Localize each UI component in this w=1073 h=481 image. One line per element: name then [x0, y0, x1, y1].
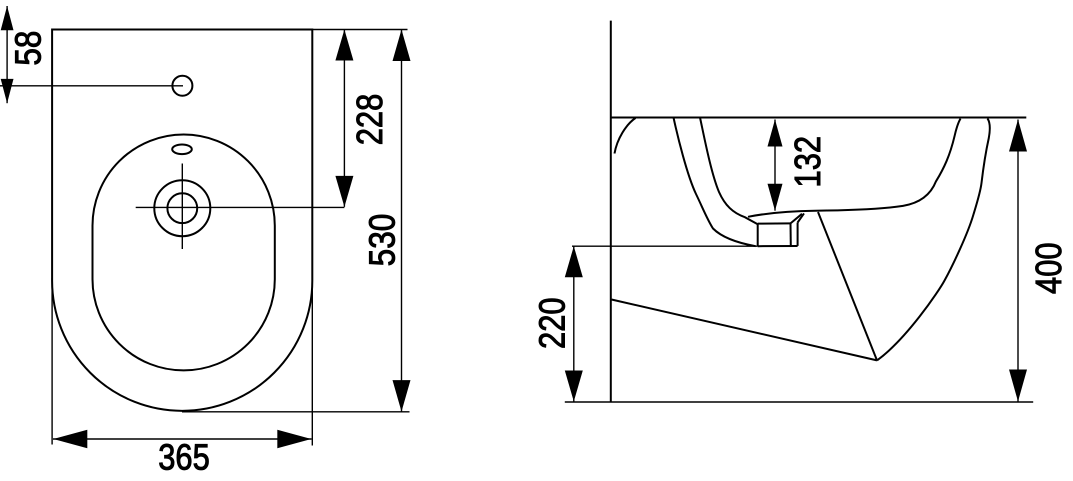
- arrow 132 up: [768, 120, 783, 147]
- arrow 58 down: [1, 79, 14, 103]
- arrow 220 up: [565, 246, 583, 277]
- svg-text:530: 530: [361, 214, 402, 267]
- tap hole: [172, 76, 192, 96]
- arrow 58 up: [1, 6, 14, 30]
- dimension line 530: [401, 30, 403, 412]
- wall line: [610, 21, 612, 402]
- rim front bend and front outer curve: [877, 119, 990, 361]
- basin back wall inner curve: [700, 118, 758, 225]
- drain box bottom edge: [758, 245, 798, 247]
- drain bottom leader line: [572, 245, 758, 247]
- bottom slanted underside line: [612, 300, 878, 361]
- svg-text:220: 220: [532, 297, 573, 349]
- dimension line 400: [1017, 120, 1019, 402]
- dimension line 132: [774, 120, 776, 211]
- bottom extension line of body: [182, 411, 410, 413]
- drain inner circle: [167, 193, 197, 223]
- body outline top view: [52, 30, 312, 411]
- basin obround: [93, 135, 275, 371]
- drain outer circle: [154, 180, 210, 236]
- basin bottom curve: [748, 119, 961, 217]
- svg-text:132: 132: [787, 136, 828, 188]
- dimension line 228: [343, 30, 345, 207]
- svg-text:400: 400: [1028, 242, 1069, 294]
- drain vertical centerline: [181, 164, 183, 250]
- drain box top edge: [758, 222, 791, 224]
- drain box top-right slant 2: [798, 213, 804, 222]
- overflow hole: [172, 145, 192, 155]
- basin back wall outer curve: [674, 118, 756, 247]
- arrow 400 up: [1009, 120, 1027, 152]
- drain box left edge: [757, 224, 759, 247]
- arrow 228 down: [335, 176, 353, 207]
- dimension line 365: [53, 438, 312, 440]
- svg-text:228: 228: [349, 94, 390, 146]
- arrow 365 left: [53, 430, 87, 448]
- arrow 220 down: [565, 371, 583, 402]
- arrow 365 right: [277, 430, 311, 448]
- svg-text:58: 58: [7, 31, 48, 66]
- top rim line with extension: [611, 117, 1027, 119]
- front steep edge to tip: [818, 212, 877, 360]
- top edge extension line: [312, 29, 407, 31]
- drain box right edge: [797, 223, 799, 246]
- arrow 530 up: [393, 30, 411, 62]
- arrow 228 up: [335, 30, 353, 61]
- tap hole leader line: [0, 85, 183, 87]
- dimension line 220: [573, 246, 575, 401]
- svg-text:365: 365: [158, 436, 210, 477]
- arrow 132 down: [768, 184, 783, 211]
- left edge extension line: [51, 278, 53, 445]
- drain box top-right slant 1: [791, 214, 803, 224]
- arrow 530 down: [393, 380, 411, 412]
- drain box middle edge: [790, 223, 792, 246]
- dimension line 58: [6, 6, 8, 103]
- drain horizontal centerline extending to 228 dimension: [136, 206, 345, 208]
- floor extension line: [565, 401, 1033, 403]
- arrow 400 down: [1009, 370, 1027, 402]
- back rim curve: [615, 118, 636, 154]
- right edge extension line: [311, 280, 313, 446]
